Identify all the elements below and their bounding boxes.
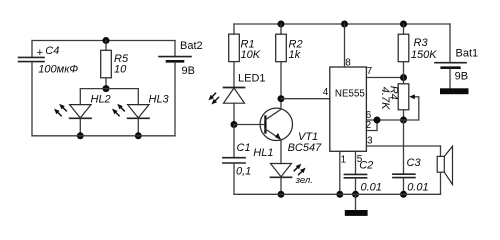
resistor R1 (10K) with value label — [229, 24, 261, 87]
wire: right circuit top supply rail — [234, 23, 450, 25]
svg-text:0.01: 0.01 — [361, 181, 382, 193]
svg-text:C4: C4 — [45, 45, 59, 57]
svg-text:Bat1: Bat1 — [456, 47, 479, 59]
pin 8 lead with junction dot on supply rail — [341, 21, 351, 69]
pin 3 output wire to speaker — [366, 135, 440, 146]
svg-text:BC547: BC547 — [288, 142, 323, 154]
svg-text:4: 4 — [323, 87, 329, 98]
svg-text:Bat2: Bat2 — [180, 40, 203, 52]
resistor R3 (150K) with junction dot and value label — [398, 21, 437, 78]
pin 1 lead to ground rail with junction dot — [336, 151, 346, 198]
svg-text:100мкФ: 100мкФ — [38, 64, 78, 76]
svg-text:HL3: HL3 — [149, 94, 170, 106]
svg-text:7: 7 — [367, 66, 373, 77]
battery Bat1 (9V) with value label — [435, 24, 478, 88]
svg-text:C3: C3 — [407, 157, 422, 169]
wire: node under R5 feeding HL2 and HL3 — [80, 88, 138, 90]
svg-text:0,1: 0,1 — [236, 166, 251, 178]
svg-text:8: 8 — [345, 57, 351, 68]
svg-text:+: + — [37, 47, 43, 59]
svg-text:0.01: 0.01 — [407, 181, 428, 193]
wire: right circuit bottom ground rail — [234, 193, 441, 195]
svg-text:C2: C2 — [359, 160, 373, 172]
svg-text:2: 2 — [366, 120, 372, 131]
wire: base of VT1 — [234, 124, 265, 126]
svg-text:1k: 1k — [289, 49, 301, 61]
LED HL2 with emission arrows and junction dot — [54, 89, 111, 140]
svg-text:9В: 9В — [455, 71, 468, 83]
svg-text:9В: 9В — [182, 65, 195, 77]
LED HL1 (green) with emission arrows, junction dot and colour label — [253, 147, 313, 198]
pin 7 wire to node with R3/R4 (junction dot) — [366, 66, 407, 81]
svg-text:LED1: LED1 — [238, 72, 266, 84]
IC U1 NE555 timer body — [330, 67, 367, 151]
svg-text:3: 3 — [367, 135, 373, 146]
svg-text:HL2: HL2 — [91, 94, 111, 106]
transistor Q1 VT1 (BC547, NPN) with type label — [260, 99, 322, 164]
potentiometer R4 (4.7K) with wiper arrow, junction dot and rotated labels — [379, 78, 419, 124]
svg-text:HL1: HL1 — [253, 147, 273, 159]
svg-text:10K: 10K — [241, 49, 261, 61]
capacitor C4 (polarized, 100uF) with value label — [19, 41, 79, 136]
wire: left circuit top rail — [32, 40, 175, 42]
ground symbol below bottom rail — [345, 194, 368, 216]
ground symbol under Bat1 — [440, 88, 469, 94]
pin 6 wire (threshold net) — [366, 110, 404, 121]
resistor R2 (1k) with junction dots and value label — [276, 21, 303, 103]
svg-text:NE555: NE555 — [335, 89, 366, 100]
svg-text:4.7K: 4.7K — [379, 87, 391, 110]
battery Bat2 (9V) with value label — [159, 40, 203, 136]
svg-text:150K: 150K — [411, 49, 437, 61]
capacitor C1 (0,1) with value label — [223, 125, 251, 195]
LED HL3 with emission arrows and junction dot — [112, 89, 170, 140]
capacitor C3 (0.01) from threshold node to ground rail with junction dot — [393, 120, 429, 198]
svg-text:1: 1 — [341, 154, 347, 165]
wire: collector node to NE555 pin 4 — [281, 98, 330, 100]
pin 2 bracket tying pin 2 to pin 6 (junction dot) — [366, 117, 381, 131]
svg-text:R3: R3 — [414, 37, 429, 49]
svg-text:C1: C1 — [237, 142, 251, 154]
speaker BA1 — [437, 146, 452, 194]
svg-text:зел.: зел. — [295, 175, 313, 186]
LED LED1 with emission arrows and junction dot at base node — [208, 72, 265, 128]
svg-text:10: 10 — [114, 63, 127, 75]
wire: left circuit bottom rail — [32, 135, 175, 137]
resistor R5 (10) with junction dots and value label — [101, 37, 129, 92]
pin 5 lead and capacitor C2 (0.01) with junction dot and value label — [344, 151, 382, 198]
